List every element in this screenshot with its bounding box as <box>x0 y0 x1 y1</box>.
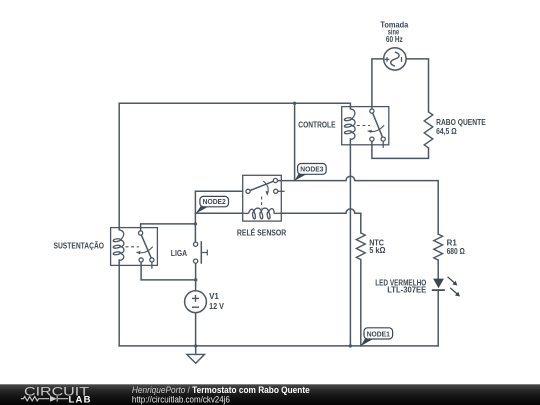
junction node at 294.6,103.3 <box>293 102 296 105</box>
wire CONTROLE coil bottom to NODE1 <box>349 139 351 346</box>
svg-text:NODE2: NODE2 <box>203 197 226 206</box>
wire left vertical into SUSTENTACAO coil <box>118 103 120 230</box>
ground <box>187 354 205 363</box>
voltage source V1 <box>185 291 207 313</box>
resistor RABO QUENTE <box>424 112 433 148</box>
svg-text:NODE1: NODE1 <box>367 329 390 338</box>
node NODE3 label <box>295 164 327 181</box>
svg-text:LIGA: LIGA <box>171 249 187 258</box>
junction node at 195.4,223.9 <box>194 222 197 225</box>
wire CONTROLE common to sine source <box>372 59 384 109</box>
svg-text:V1: V1 <box>209 292 219 301</box>
wire SUSTENTACAO coil bottom to NODE1 rail <box>118 260 120 346</box>
inductor coil of relay SUSTENTACAO <box>113 230 124 261</box>
wire NODE3 net: sensor contact to R1 with hop <box>278 176 439 234</box>
voltage source Tomada (sine) <box>384 48 406 70</box>
junction node at 350.3,345.9 <box>349 344 352 347</box>
wire LED to NODE1 <box>437 290 439 346</box>
wire SUSTENTACAO contact to V1 node <box>141 262 196 280</box>
svg-text:RABO QUENTE: RABO QUENTE <box>436 118 486 127</box>
pushbutton LIGA <box>194 241 208 264</box>
relay SUSTENTACAO switch <box>126 231 154 269</box>
svg-text:680 Ω: 680 Ω <box>447 247 466 256</box>
svg-text:http://circuitlab.com/ckv24j6: http://circuitlab.com/ckv24j6 <box>132 394 230 404</box>
svg-text:CONTROLE: CONTROLE <box>298 120 336 129</box>
wire ground stub <box>195 346 197 355</box>
relay RELE SENSOR switch <box>246 178 285 208</box>
wire sine source to RABO QUENTE <box>407 59 429 112</box>
CircuitLab logo <box>21 384 92 405</box>
relay RELE SENSOR box <box>243 175 282 221</box>
wire sensor coil left to NODE2 <box>195 212 242 214</box>
wire NODE1 bottom rail <box>119 345 438 347</box>
inductor coil of relay CONTROLE <box>344 109 355 140</box>
resistor R1 <box>434 234 443 260</box>
wire SUSTENTACAO switch common to NODE2 <box>141 224 196 231</box>
svg-text:LTL-307EE: LTL-307EE <box>387 285 427 294</box>
relay SUSTENTACAO box <box>111 228 158 266</box>
wire NTC bottom to NODE1 <box>360 260 362 346</box>
svg-text:60 Hz: 60 Hz <box>386 35 403 44</box>
inductor coil of relay RELE SENSOR <box>243 208 282 219</box>
wire LIGA to V1 <box>195 263 197 291</box>
svg-text:5 kΩ: 5 kΩ <box>369 246 386 255</box>
junction node at 195.7,279.9 <box>194 278 197 281</box>
node NODE1 label <box>361 328 393 346</box>
node NODE2 label <box>196 196 229 213</box>
svg-text:64,5 Ω: 64,5 Ω <box>436 127 457 136</box>
relay CONTROLE switch <box>357 109 386 148</box>
svg-text:HenriquePorto / Termostato com: HenriquePorto / Termostato com Rabo Quen… <box>132 385 310 395</box>
wire V1 to ground rail <box>195 313 197 346</box>
svg-text:NODE3: NODE3 <box>300 165 323 174</box>
svg-text:SUSTENTAÇÃO: SUSTENTAÇÃO <box>54 242 105 251</box>
wire sensor coil right to NTC with hop <box>281 209 361 233</box>
junction node at 195.7,345.9 <box>194 344 197 347</box>
wire R1 to LED <box>437 260 439 279</box>
wire top net from SUSTENTACAO coil to CONTROLE coil <box>119 103 350 109</box>
svg-text:LAB: LAB <box>69 395 92 405</box>
svg-text:RELÉ SENSOR: RELÉ SENSOR <box>237 229 286 238</box>
wire sensor common to NODE2 vertical <box>195 191 242 242</box>
resistor NTC <box>356 233 365 260</box>
LED D1 LTL-307EE <box>432 277 460 297</box>
relay CONTROLE box <box>342 107 389 145</box>
svg-text:12 V: 12 V <box>209 302 224 311</box>
wire CONTROLE branch vertical <box>294 103 296 180</box>
wire CONTROLE contact to RABO QUENTE bottom <box>372 141 429 158</box>
